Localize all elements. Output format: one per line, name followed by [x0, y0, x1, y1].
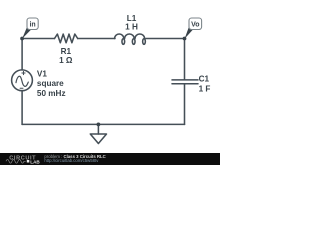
svg-text:in: in	[29, 22, 35, 29]
svg-text:C1: C1	[199, 75, 210, 84]
svg-text:50 mHz: 50 mHz	[37, 89, 66, 98]
svg-text:V1: V1	[37, 70, 47, 79]
svg-text:http://circuitlab.com/c5w58tv: http://circuitlab.com/c5w58tv	[44, 158, 99, 163]
svg-text:L1: L1	[127, 14, 137, 23]
svg-text:1 Ω: 1 Ω	[59, 56, 73, 65]
svg-text:square: square	[37, 79, 64, 88]
svg-text:LAB: LAB	[30, 159, 40, 164]
svg-text:R1: R1	[61, 47, 72, 56]
svg-text:Vo: Vo	[191, 22, 199, 29]
svg-text:1 H: 1 H	[125, 23, 138, 32]
svg-text:1 F: 1 F	[199, 85, 211, 94]
